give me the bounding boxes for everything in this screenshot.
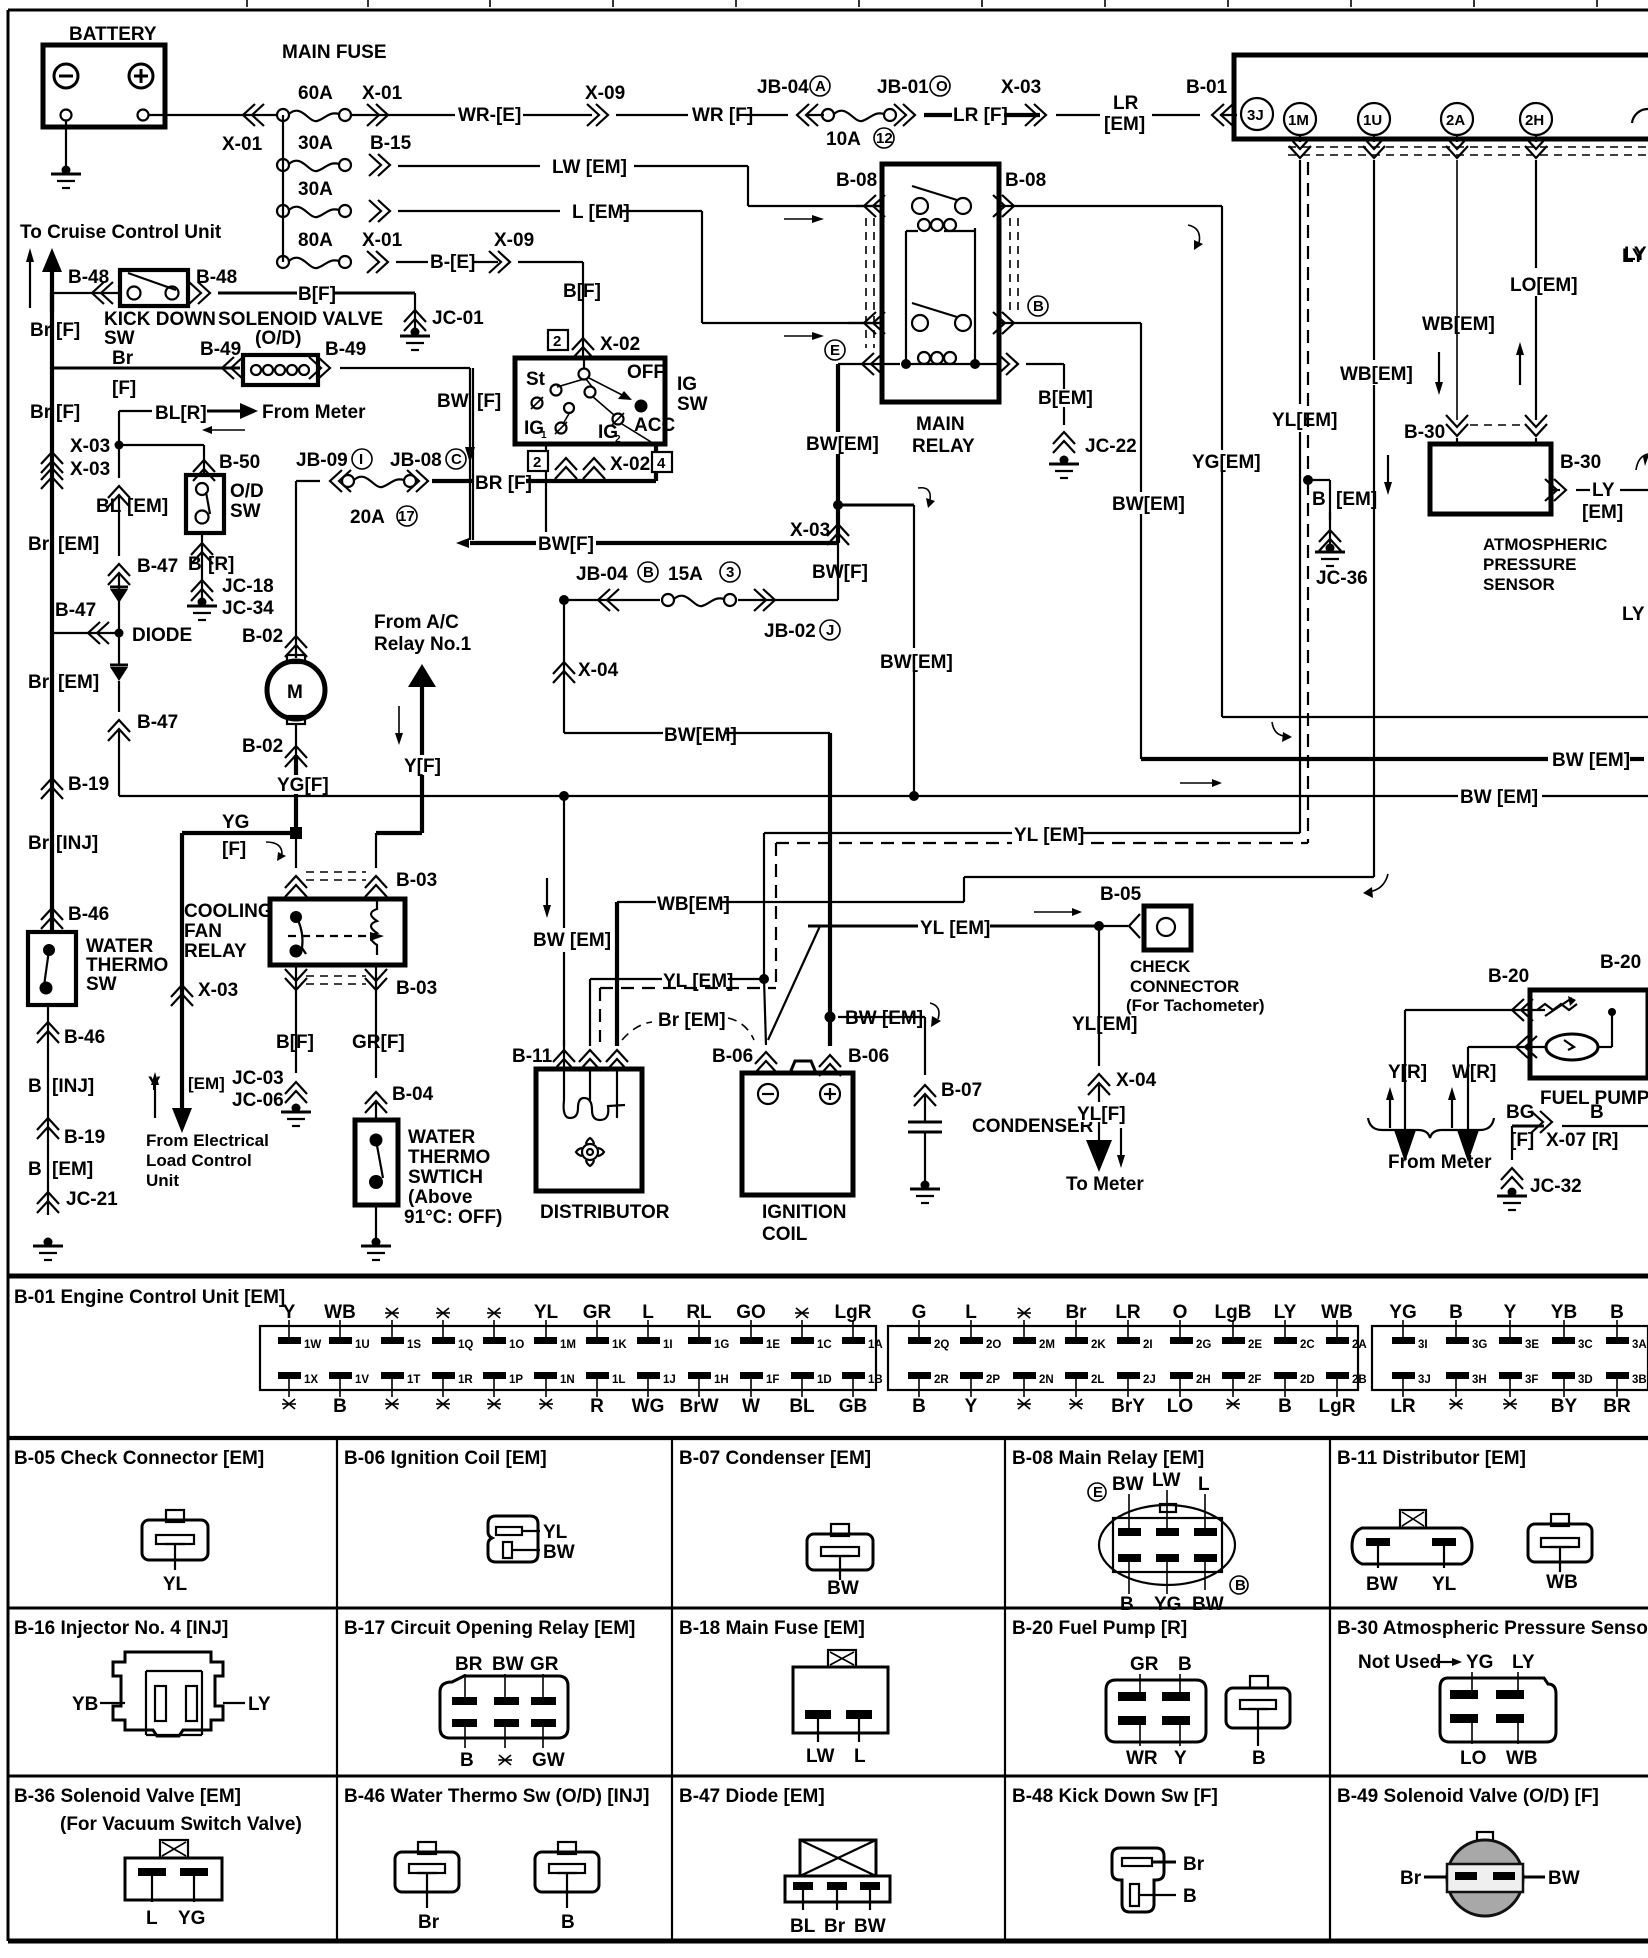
label from electrical load control unit: [146, 1131, 269, 1190]
svg-text:WR-[E]: WR-[E]: [458, 105, 521, 126]
svg-text:X-09: X-09: [585, 83, 625, 104]
label IG SW: [677, 374, 708, 415]
connector icon B-36: [160, 1840, 188, 1858]
connector B-04: [365, 1084, 434, 1120]
svg-text:SW: SW: [677, 394, 708, 415]
svg-text:BrY: BrY: [1111, 1396, 1145, 1417]
svg-text:X-07: X-07: [1546, 1130, 1586, 1151]
svg-text:WATER: WATER: [86, 936, 153, 957]
wire YL[EM] to distributor: [590, 969, 776, 1046]
svg-text:YG: YG: [1389, 1302, 1416, 1323]
wire LW [EM]: [398, 157, 1647, 265]
connector B-02 lower: [242, 724, 307, 767]
connector B-19 lower: [37, 1105, 105, 1215]
svg-text:1P: 1P: [509, 1374, 523, 1386]
svg-text:J: J: [826, 622, 834, 639]
connector B-19 on bus: [41, 774, 109, 799]
svg-text:YL[F]: YL[F]: [1077, 1104, 1126, 1125]
svg-text:B: B: [1590, 1102, 1604, 1123]
svg-text:2B: 2B: [1352, 1374, 1367, 1386]
svg-text:L: L: [965, 1302, 977, 1323]
ECU pin 3J: [1241, 98, 1273, 130]
svg-text:B: B: [912, 1396, 926, 1417]
wire YG[F] motor down: [276, 755, 329, 833]
svg-text:BW[EM]: BW[EM]: [806, 434, 879, 455]
svg-text:(For Vacuum Switch Valve): (For Vacuum Switch Valve): [60, 1814, 302, 1835]
svg-text:BL: BL: [790, 1916, 816, 1937]
connector B-30: [1404, 415, 1547, 444]
svg-text:LR: LR: [1113, 93, 1139, 114]
svg-text:B-48 Kick Down Sw [F]: B-48 Kick Down Sw [F]: [1012, 1786, 1218, 1807]
svg-text:[R]: [R]: [208, 554, 234, 575]
svg-text:B: B: [643, 564, 654, 581]
connector B-03 lower: [285, 965, 437, 1078]
connector B-11: [512, 1040, 628, 1071]
svg-text:Br: Br: [28, 833, 50, 854]
wire YL[EM] from 1M: [1272, 160, 1337, 843]
connector block B-01: [260, 1326, 876, 1390]
svg-text:Br: Br: [824, 1916, 846, 1937]
svg-text:B: B: [460, 1750, 474, 1771]
svg-text:St: St: [526, 369, 546, 390]
arrow from electrical: [151, 1072, 159, 1118]
svg-text:JC-32: JC-32: [1530, 1176, 1582, 1197]
svg-text:SW: SW: [86, 974, 117, 995]
svg-text:2N: 2N: [1039, 1374, 1054, 1386]
svg-text:X-03: X-03: [790, 520, 830, 541]
svg-text:B-48: B-48: [68, 267, 109, 288]
svg-text:OFF: OFF: [627, 362, 665, 383]
wire Br [EM] dash-dot: [622, 1010, 754, 1040]
svg-text:30A: 30A: [298, 133, 333, 154]
wire WR-[E]: [352, 105, 592, 126]
wire LO[EM] from 2H: [1510, 160, 1645, 420]
svg-text:WB: WB: [1506, 1748, 1538, 1769]
connector icon B-18: [828, 1650, 856, 1667]
svg-text:YG[EM]: YG[EM]: [1192, 452, 1261, 473]
svg-text:BW[EM]: BW[EM]: [880, 652, 953, 673]
wire relay top contact to YG[EM]: [999, 206, 1648, 717]
wire B-[E]: [396, 230, 583, 273]
svg-text:1O: 1O: [509, 1339, 524, 1351]
svg-text:B-07: B-07: [941, 1080, 982, 1101]
svg-text:X-01: X-01: [362, 230, 403, 251]
svg-text:80A: 80A: [298, 230, 333, 251]
connector B-20: [1488, 952, 1641, 1058]
frame border left: [7, 10, 10, 1941]
connector block B-01: [1372, 1326, 1648, 1390]
svg-text:LR: LR: [1390, 1396, 1416, 1417]
svg-text:B-08: B-08: [836, 170, 877, 191]
svg-text:BR [F]: BR [F]: [475, 473, 532, 494]
svg-text:2E: 2E: [1248, 1339, 1262, 1351]
svg-text:91°C: OFF): 91°C: OFF): [404, 1207, 502, 1228]
svg-text:ATMOSPHERIC: ATMOSPHERIC: [1483, 535, 1607, 554]
connector B-01: [1186, 77, 1237, 126]
wire BW[EM] to ignition coil: [564, 723, 941, 1046]
svg-text:LW [EM]: LW [EM]: [552, 157, 627, 178]
svg-text:WB[EM]: WB[EM]: [657, 894, 730, 915]
svg-text:B-30: B-30: [1560, 452, 1601, 473]
label Br [EM]: [28, 534, 99, 555]
label water thermo switch: [404, 1127, 502, 1228]
svg-text:WB[EM]: WB[EM]: [1422, 314, 1495, 335]
svg-text:3: 3: [726, 564, 734, 581]
svg-text:B: B: [1312, 489, 1326, 510]
svg-text:1: 1: [541, 430, 547, 441]
water thermo sw: [28, 932, 168, 1005]
svg-text:1C: 1C: [817, 1339, 832, 1351]
wire LR [EM]: [1056, 93, 1200, 135]
svg-text:3H: 3H: [1472, 1374, 1487, 1386]
wire BR [F] bold: [432, 444, 656, 494]
svg-text:To Cruise Control Unit: To Cruise Control Unit: [20, 222, 222, 243]
svg-text:Not Used: Not Used: [1358, 1652, 1441, 1673]
svg-text:B-17 Circuit Opening Relay [E: B-17 Circuit Opening Relay [EM]: [344, 1618, 635, 1639]
svg-text:B-20: B-20: [1600, 952, 1641, 973]
check connector B-05: [1100, 884, 1191, 950]
svg-text:WB: WB: [1546, 1572, 1578, 1593]
svg-text:YL [EM]: YL [EM]: [1014, 825, 1084, 846]
svg-text:I: I: [359, 451, 363, 468]
svg-text:BG: BG: [1506, 1102, 1535, 1123]
svg-text:1T: 1T: [407, 1374, 420, 1386]
svg-text:B: B: [1252, 1748, 1266, 1769]
svg-text:Br: Br: [1183, 1854, 1205, 1875]
fuel pump box: [1530, 990, 1648, 1078]
svg-text:2F: 2F: [1248, 1374, 1261, 1386]
svg-text:1K: 1K: [612, 1339, 627, 1351]
svg-text:LY: LY: [248, 1694, 271, 1715]
svg-text:2L: 2L: [1091, 1374, 1104, 1386]
svg-text:L: L: [1198, 1474, 1210, 1495]
svg-text:Br: Br: [30, 402, 52, 423]
svg-text:1N: 1N: [560, 1374, 575, 1386]
svg-text:GR: GR: [530, 1654, 559, 1675]
wire L [EM]: [398, 202, 702, 223]
svg-text:BW: BW: [854, 1916, 886, 1937]
svg-text:YL: YL: [1432, 1574, 1457, 1595]
svg-text:C: C: [451, 451, 462, 468]
connector icon B-49: [1477, 1832, 1493, 1844]
svg-text:B-05 Check Connector [EM]: B-05 Check Connector [EM]: [14, 1448, 264, 1469]
svg-text:[EM]: [EM]: [1336, 489, 1377, 510]
svg-text:B: B: [561, 1912, 575, 1933]
svg-text:2O: 2O: [986, 1339, 1001, 1351]
svg-text:E: E: [830, 342, 840, 359]
label BW [F] vertical wire: [472, 368, 474, 540]
connector JB-02 J: [764, 620, 840, 642]
svg-text:M: M: [287, 682, 303, 703]
ECU pin 2H: [1520, 103, 1552, 142]
svg-text:L: L: [146, 1908, 158, 1929]
svg-text:2H: 2H: [1196, 1374, 1211, 1386]
svg-text:B-18 Main Fuse [EM]: B-18 Main Fuse [EM]: [679, 1618, 865, 1639]
svg-text:THERMO: THERMO: [86, 955, 168, 976]
svg-text:From A/C: From A/C: [374, 612, 459, 633]
svg-text:X-03: X-03: [198, 980, 238, 1001]
svg-text:BATTERY: BATTERY: [69, 24, 157, 45]
label cooling fan relay: [184, 901, 273, 962]
svg-text:BW: BW: [1192, 1594, 1224, 1615]
svg-text:LR [F]: LR [F]: [953, 105, 1008, 126]
svg-text:60A: 60A: [298, 83, 333, 104]
ignition coil box: [742, 1061, 853, 1195]
svg-text:[EM]: [EM]: [1104, 114, 1145, 135]
connector icon B-47: [800, 1840, 876, 1876]
svg-text:CONNECTOR: CONNECTOR: [1130, 977, 1239, 996]
svg-text:2Q: 2Q: [934, 1339, 949, 1351]
svg-text:1G: 1G: [714, 1339, 729, 1351]
label MAIN RELAY: [912, 414, 975, 457]
frame border top: [8, 9, 1648, 12]
svg-text:3J: 3J: [1418, 1374, 1431, 1386]
svg-text:B-20: B-20: [1488, 966, 1529, 987]
diode symbol upper: [110, 587, 128, 603]
svg-text:X-02: X-02: [600, 334, 640, 355]
svg-text:KICK DOWN: KICK DOWN: [104, 309, 216, 330]
svg-text:GR[F]: GR[F]: [352, 1032, 405, 1053]
svg-text:Br: Br: [28, 672, 50, 693]
wire BW[EM] vertical bold: [790, 364, 879, 545]
connector B-06 right: [819, 1046, 889, 1076]
svg-text:2A: 2A: [1352, 1339, 1367, 1351]
wire left bus Br: [50, 293, 54, 930]
svg-text:[EM]: [EM]: [58, 672, 99, 693]
svg-text:JC-21: JC-21: [66, 1189, 118, 1210]
svg-text:BY: BY: [1551, 1396, 1578, 1417]
svg-text:B-49 Solenoid Valve (O/D) [F]: B-49 Solenoid Valve (O/D) [F]: [1337, 1786, 1599, 1807]
svg-text:3G: 3G: [1472, 1339, 1487, 1351]
wire WB[EM] to distributor: [617, 874, 1388, 1046]
svg-text:COIL: COIL: [762, 1224, 808, 1245]
svg-text:B-03: B-03: [396, 870, 437, 891]
svg-text:JB-02: JB-02: [764, 621, 816, 642]
svg-text:B: B: [1449, 1302, 1463, 1323]
svg-text:1R: 1R: [458, 1374, 473, 1386]
svg-text:B-07 Condenser [EM]: B-07 Condenser [EM]: [679, 1448, 871, 1469]
svg-text:BrW: BrW: [679, 1396, 718, 1417]
svg-text:B-47 Diode [EM]: B-47 Diode [EM]: [679, 1786, 825, 1807]
main relay box: [882, 164, 999, 402]
wire Y[F] to cooling fan coil: [376, 833, 422, 868]
connector below O/D sw: [188, 533, 234, 600]
wire BW[F] bold horizontal: [456, 532, 838, 555]
label Br [F] second: [30, 402, 80, 423]
svg-text:12: 12: [876, 130, 893, 147]
svg-text:B: B: [1183, 1886, 1197, 1907]
distributor box: [536, 1069, 642, 1191]
svg-text:2: 2: [533, 454, 541, 471]
svg-text:R: R: [590, 1396, 604, 1417]
svg-text:YL[EM]: YL[EM]: [1272, 410, 1337, 431]
svg-text:[INJ]: [INJ]: [52, 1076, 94, 1097]
wire B-47 to bus: [52, 600, 192, 646]
svg-text:B-02: B-02: [242, 626, 283, 647]
svg-text:2K: 2K: [1091, 1339, 1106, 1351]
connector B-48 right: [189, 267, 237, 304]
svg-text:JB-09: JB-09: [296, 450, 348, 471]
ground JC-03 JC-06: [232, 1068, 311, 1126]
svg-text:1B: 1B: [868, 1374, 883, 1386]
wire L to main relay: [702, 211, 884, 340]
svg-text:Br: Br: [112, 348, 134, 369]
connector X-01: [362, 83, 403, 126]
wire B[EM] JC-36: [1303, 475, 1377, 589]
svg-text:YB: YB: [1551, 1302, 1577, 1323]
connector icon B-11 right: [1551, 1514, 1569, 1526]
connector B-47 on BL line: [108, 556, 178, 631]
svg-text:1X: 1X: [304, 1374, 318, 1386]
circled B: [1028, 296, 1048, 316]
wire YG [F] branch: [182, 812, 302, 861]
svg-text:LW: LW: [1152, 1470, 1181, 1491]
svg-text:B-19: B-19: [68, 774, 109, 795]
diode symbol lower: [110, 633, 128, 712]
svg-text:1H: 1H: [714, 1374, 729, 1386]
svg-text:B-08: B-08: [1005, 170, 1046, 191]
svg-text:BW[EM]: BW[EM]: [1112, 494, 1185, 515]
svg-text:BW[F]: BW[F]: [538, 534, 594, 555]
svg-text:BW: BW: [492, 1654, 524, 1675]
svg-text:JB-08: JB-08: [390, 450, 442, 471]
svg-text:[F]: [F]: [56, 320, 80, 341]
svg-text:From Meter: From Meter: [1388, 1152, 1492, 1173]
O/D switch: [186, 475, 264, 533]
svg-text:SOLENOID VALVE: SOLENOID VALVE: [218, 309, 383, 330]
svg-text:17: 17: [398, 508, 415, 525]
svg-text:From Electrical: From Electrical: [146, 1131, 269, 1150]
svg-text:LY: LY: [1622, 246, 1645, 267]
svg-text:O/D: O/D: [230, 481, 264, 502]
svg-text:SW: SW: [104, 328, 135, 349]
fuse 60A: [277, 83, 351, 121]
svg-text:[R]: [R]: [1592, 1130, 1618, 1151]
svg-text:B-46: B-46: [64, 1027, 105, 1048]
svg-text:B-30: B-30: [1404, 422, 1445, 443]
svg-text:B[F]: B[F]: [276, 1032, 314, 1053]
svg-text:JC-34: JC-34: [222, 598, 274, 619]
svg-text:LY: LY: [1274, 1302, 1297, 1323]
connector icon B-46: [418, 1842, 436, 1854]
svg-text:LgB: LgB: [1215, 1302, 1252, 1323]
svg-text:B-47: B-47: [55, 600, 96, 621]
svg-text:Br: Br: [28, 534, 50, 555]
svg-text:WG: WG: [632, 1396, 665, 1417]
svg-text:SWTICH: SWTICH: [408, 1167, 483, 1188]
label Br [EM] 2: [28, 672, 99, 693]
svg-text:3C: 3C: [1578, 1339, 1593, 1351]
svg-text:B-20 Fuel Pump [R]: B-20 Fuel Pump [R]: [1012, 1618, 1187, 1639]
svg-text:B-11 Distributor [EM]: B-11 Distributor [EM]: [1337, 1448, 1526, 1469]
svg-text:2J: 2J: [1143, 1374, 1156, 1386]
svg-text:1W: 1W: [304, 1339, 321, 1351]
wire YL [EM] to check connector: [808, 908, 1140, 939]
ECU pin 1U: [1358, 103, 1390, 142]
svg-text:[F]: [F]: [1510, 1130, 1534, 1151]
svg-text:2M: 2M: [1039, 1339, 1055, 1351]
wire Y[F] from A/C: [374, 612, 472, 833]
svg-text:MAIN: MAIN: [916, 414, 965, 435]
svg-text:1U: 1U: [355, 1339, 370, 1351]
brace from meter: [1368, 1118, 1494, 1173]
svg-text:YL: YL: [163, 1574, 188, 1595]
svg-text:4: 4: [657, 455, 666, 472]
svg-text:2D: 2D: [1300, 1374, 1315, 1386]
svg-text:LgR: LgR: [1319, 1396, 1356, 1417]
svg-text:B: B: [188, 554, 202, 575]
connector X-03: [1001, 77, 1046, 126]
svg-text:B: B: [1178, 1654, 1192, 1675]
svg-text:[EM]: [EM]: [1582, 502, 1623, 523]
svg-text:B[F]: B[F]: [298, 284, 336, 305]
svg-text:B: B: [28, 1076, 42, 1097]
svg-text:LO[EM]: LO[EM]: [1510, 275, 1578, 296]
svg-text:Br: Br: [1065, 1302, 1087, 1323]
svg-text:2: 2: [553, 333, 561, 350]
svg-text:GR: GR: [583, 1302, 612, 1323]
label Br [INJ]: [28, 833, 98, 854]
svg-text:2: 2: [615, 434, 621, 445]
connector icon B-06: [488, 1516, 538, 1562]
svg-text:X-03: X-03: [1001, 77, 1041, 98]
svg-text:Br [EM]: Br [EM]: [658, 1010, 726, 1031]
wire B[F] down to IG SW: [548, 262, 640, 359]
svg-text:JC-18: JC-18: [222, 576, 274, 597]
connector BL [EM]: [96, 486, 168, 556]
svg-text:CHECK: CHECK: [1130, 957, 1191, 976]
svg-text:Y[R]: Y[R]: [1388, 1062, 1427, 1083]
svg-text:BL: BL: [789, 1396, 815, 1417]
node BL junction: [115, 411, 205, 478]
ECU box top right: [1234, 55, 1648, 139]
connector B-46 lower: [37, 1005, 105, 1105]
svg-text:BW: BW: [543, 1542, 575, 1563]
atmospheric pressure sensor box: [1430, 444, 1551, 514]
wire B[F] kick down: [218, 283, 415, 305]
svg-text:JB-04: JB-04: [576, 564, 628, 585]
svg-text:X-01: X-01: [222, 134, 263, 155]
svg-text:1J: 1J: [663, 1374, 676, 1386]
water thermo switch: [355, 1120, 398, 1205]
svg-text:B-15: B-15: [370, 133, 412, 154]
connector icon B-16: [113, 1652, 223, 1736]
svg-text:2P: 2P: [986, 1374, 1000, 1386]
svg-text:B-46: B-46: [68, 904, 109, 925]
svg-text:YL [EM]: YL [EM]: [920, 918, 990, 939]
wire relay lower contact BW [EM]: [999, 225, 1644, 771]
connector B-08 left: [836, 170, 885, 348]
svg-text:Y: Y: [965, 1396, 978, 1417]
svg-text:YL: YL: [534, 1302, 559, 1323]
svg-text:B-01 Engine Control Unit [EM]: B-01 Engine Control Unit [EM]: [14, 1287, 285, 1308]
svg-text:LO: LO: [1460, 1748, 1486, 1769]
svg-text:YG[F]: YG[F]: [277, 775, 329, 796]
svg-text:B: B: [1120, 1594, 1134, 1615]
svg-text:B-47: B-47: [137, 556, 178, 577]
svg-text:B: B: [1235, 1577, 1246, 1594]
svg-text:[F]: [F]: [112, 378, 136, 399]
wire B-48 to kick down: [52, 267, 118, 304]
ground JC-18 JC-34: [187, 576, 274, 620]
svg-text:G: G: [912, 1302, 927, 1323]
svg-text:LY: LY: [1512, 1652, 1535, 1673]
svg-text:[INJ]: [INJ]: [56, 833, 98, 854]
svg-text:B-49: B-49: [325, 339, 366, 360]
connector JB-04 A: [757, 76, 830, 126]
svg-text:B-03: B-03: [396, 978, 437, 999]
svg-text:[EM]: [EM]: [127, 496, 168, 517]
